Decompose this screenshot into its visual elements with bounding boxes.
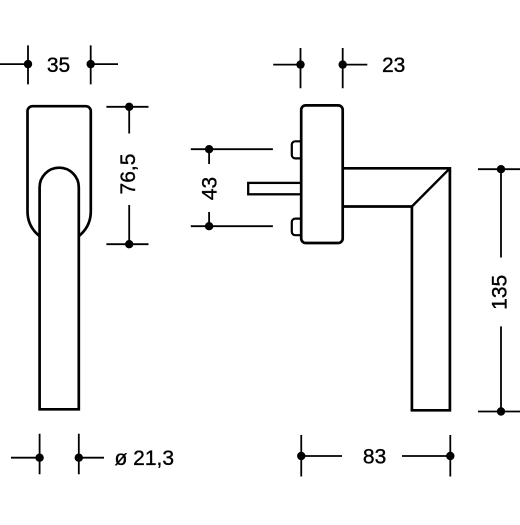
svg-text:23: 23 — [382, 54, 405, 77]
dim 43: dots — [205, 145, 213, 153]
dim 23: lines — [273, 64, 367, 66]
dim 135: dots — [497, 165, 505, 173]
dim 83: dots — [297, 452, 305, 460]
front view: handle rose outline — [28, 106, 91, 243]
svg-text:76,5: 76,5 — [117, 154, 140, 195]
dim 35: extension lines — [28, 45, 91, 84]
side view: rose plate — [301, 105, 343, 243]
svg-text:135: 135 — [489, 275, 512, 310]
dim 43: dimension line segments — [208, 149, 210, 226]
dim 76,5: dots — [125, 103, 133, 111]
front view: handle grip bar — [40, 168, 79, 410]
dim 23: dots — [296, 60, 304, 68]
dim 23: extension lines — [301, 48, 343, 88]
svg-text:43: 43 — [198, 177, 221, 200]
svg-text:83: 83 — [363, 445, 386, 468]
side view: handle arm and vertical bar — [343, 168, 450, 410]
svg-text:ø 21,3: ø 21,3 — [115, 447, 175, 470]
dim o21,3: lines — [11, 457, 104, 459]
dim 83: extension lines — [301, 435, 450, 477]
side view: top screw lug — [292, 141, 303, 158]
side view: corner miter line — [412, 168, 450, 206]
dim 135: ticks — [478, 169, 520, 411]
svg-text:35: 35 — [47, 54, 70, 77]
dim 135: dimension line segments — [500, 169, 502, 411]
dim 83: dimension line segments — [301, 455, 450, 457]
dim 43: leader ticks — [191, 149, 273, 226]
dim o21,3: extension lines — [40, 434, 79, 474]
dim 35: lines — [0, 63, 118, 65]
side view: bottom screw lug — [292, 219, 303, 236]
dim 35: dots — [24, 60, 32, 68]
dim o21,3: dots — [35, 454, 43, 462]
dim 76,5: ticks — [106, 107, 148, 244]
side view: spindle — [248, 183, 301, 194]
dim 76,5: dimension line segments — [128, 107, 130, 244]
